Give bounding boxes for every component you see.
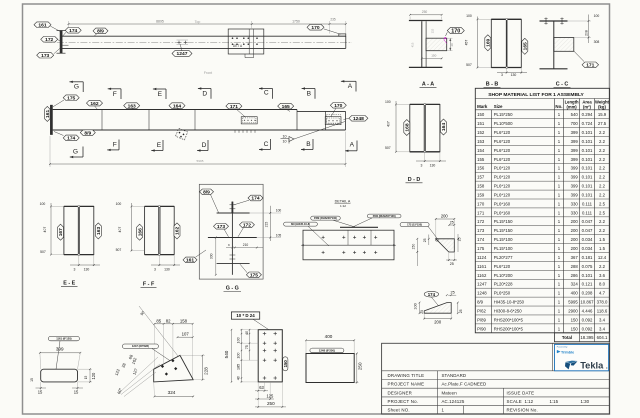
- svg-text:No.: No.: [555, 104, 562, 109]
- svg-text:100: 100: [236, 353, 240, 359]
- svg-text:(kg): (kg): [598, 104, 606, 109]
- svg-text:130: 130: [511, 73, 517, 77]
- svg-text:0.101: 0.101: [582, 139, 593, 144]
- svg-text:18.395: 18.395: [580, 335, 594, 340]
- svg-text:B - B: B - B: [486, 82, 499, 88]
- svg-text:P/62: P/62: [477, 308, 486, 313]
- svg-text:B: B: [307, 90, 312, 97]
- svg-text:507: 507: [116, 248, 122, 252]
- svg-text:PL15*150: PL15*150: [494, 219, 513, 224]
- svg-text:0.047: 0.047: [582, 219, 593, 224]
- svg-text:540: 540: [224, 350, 229, 358]
- svg-text:1124: 1124: [477, 255, 487, 260]
- svg-text:PL6*120: PL6*120: [494, 175, 511, 180]
- svg-text:604.1: 604.1: [597, 335, 608, 340]
- svg-text:413: 413: [411, 42, 415, 47]
- svg-text:0.111: 0.111: [582, 201, 593, 206]
- svg-text:0.101: 0.101: [582, 175, 593, 180]
- svg-text:151: 151: [477, 121, 485, 126]
- svg-text:(mm): (mm): [566, 104, 577, 109]
- svg-text:PL6*120: PL6*120: [494, 184, 511, 189]
- svg-text:RHS200*100*5: RHS200*100*5: [494, 326, 524, 331]
- svg-text:P/89 (RHS200*100): P/89 (RHS200*100): [314, 216, 337, 220]
- svg-text:0.181: 0.181: [582, 255, 593, 260]
- svg-text:400: 400: [325, 334, 333, 339]
- svg-text:PL20*228: PL20*228: [494, 282, 513, 287]
- svg-text:165: 165: [522, 42, 528, 50]
- svg-text:185: 185: [236, 364, 240, 370]
- svg-text:40: 40: [245, 331, 249, 335]
- svg-text:507: 507: [466, 63, 472, 67]
- svg-text:2.2: 2.2: [599, 192, 606, 197]
- svg-text:170: 170: [477, 201, 485, 206]
- svg-text:100: 100: [594, 14, 600, 18]
- svg-text:200: 200: [571, 246, 579, 251]
- svg-text:A: A: [348, 83, 353, 90]
- svg-text:169: 169: [485, 38, 491, 46]
- svg-text:170: 170: [311, 25, 319, 31]
- svg-text:1:12: 1:12: [525, 399, 534, 404]
- svg-text:PL15*150: PL15*150: [494, 228, 513, 233]
- svg-text:173: 173: [41, 53, 49, 59]
- svg-text:Top: Top: [195, 20, 201, 24]
- svg-text:REVISION No.: REVISION No.: [507, 408, 538, 413]
- svg-text:PL15*100: PL15*100: [494, 237, 513, 242]
- svg-text:200: 200: [434, 319, 442, 324]
- svg-text:175: 175: [477, 246, 485, 251]
- svg-text:507: 507: [40, 250, 46, 254]
- svg-text:1:15: 1:15: [550, 399, 559, 404]
- svg-text:0.075: 0.075: [582, 264, 593, 269]
- svg-text:155: 155: [477, 157, 485, 162]
- svg-text:F - F: F - F: [143, 282, 155, 288]
- svg-text:1248: 1248: [477, 291, 487, 296]
- svg-text:F: F: [113, 142, 117, 149]
- svg-text:163: 163: [96, 227, 102, 235]
- svg-text:75: 75: [245, 345, 249, 349]
- svg-text:250: 250: [422, 10, 428, 14]
- svg-text:100: 100: [236, 337, 240, 343]
- svg-text:10 * D 24: 10 * D 24: [236, 313, 255, 318]
- svg-text:15: 15: [74, 390, 79, 395]
- svg-text:2900: 2900: [568, 308, 578, 313]
- svg-text:399: 399: [571, 192, 579, 197]
- svg-text:15: 15: [30, 378, 34, 382]
- svg-text:0.034: 0.034: [582, 237, 593, 242]
- svg-text:1248: 1248: [353, 116, 364, 122]
- svg-text:3.4: 3.4: [599, 326, 606, 331]
- svg-text:250: 250: [267, 401, 275, 406]
- svg-text:170: 170: [451, 28, 460, 34]
- svg-text:G: G: [73, 148, 78, 155]
- svg-text:P/89: P/89: [477, 317, 486, 322]
- svg-text:Mark: Mark: [477, 104, 488, 109]
- svg-text:8/9 (HI435-10-8): 8/9 (HI435-10-8): [291, 222, 310, 226]
- svg-text:407: 407: [118, 227, 122, 233]
- svg-text:E - E: E - E: [63, 280, 75, 286]
- svg-text:2.2: 2.2: [599, 148, 606, 153]
- svg-text:399: 399: [571, 139, 579, 144]
- svg-text:HI300-8-6*250: HI300-8-6*250: [494, 308, 523, 313]
- svg-text:1161 (6*120): 1161 (6*120): [56, 337, 71, 341]
- svg-text:174: 174: [67, 136, 75, 142]
- svg-text:1:12: 1:12: [340, 204, 346, 208]
- svg-text:P/90: P/90: [477, 326, 486, 331]
- svg-text:0.111: 0.111: [582, 210, 593, 215]
- svg-text:172 (15*150): 172 (15*150): [407, 222, 422, 226]
- svg-text:PL6*120: PL6*120: [494, 148, 511, 153]
- svg-text:3.4: 3.4: [599, 317, 606, 322]
- svg-text:171: 171: [477, 210, 485, 215]
- svg-text:399: 399: [571, 166, 579, 171]
- svg-text:235: 235: [330, 18, 336, 22]
- svg-text:200: 200: [441, 213, 449, 218]
- svg-text:164: 164: [441, 123, 447, 131]
- svg-text:PL6*120: PL6*120: [494, 264, 511, 269]
- svg-text:174: 174: [428, 292, 436, 297]
- svg-text:SCALE: SCALE: [507, 399, 522, 404]
- svg-text:1161: 1161: [477, 264, 487, 269]
- svg-text:1247: 1247: [477, 282, 487, 287]
- svg-text:PL6*120: PL6*120: [494, 130, 511, 135]
- svg-text:0.034: 0.034: [582, 246, 593, 251]
- svg-text:120: 120: [91, 372, 96, 380]
- svg-text:PL20*277: PL20*277: [494, 255, 513, 260]
- svg-text:100: 100: [116, 202, 122, 206]
- svg-text:324: 324: [168, 390, 176, 395]
- svg-text:288: 288: [571, 264, 579, 269]
- svg-text:100: 100: [466, 14, 472, 18]
- svg-text:118.6: 118.6: [597, 308, 608, 313]
- svg-text:150: 150: [431, 54, 436, 58]
- svg-text:0.101: 0.101: [582, 148, 593, 153]
- svg-text:172: 172: [477, 219, 485, 224]
- svg-text:125: 125: [266, 393, 274, 398]
- svg-text:Trimble: Trimble: [561, 350, 574, 354]
- svg-text:0.208: 0.208: [582, 291, 593, 296]
- svg-text:2.2: 2.2: [599, 157, 606, 162]
- svg-text:25: 25: [423, 238, 427, 242]
- svg-text:700: 700: [571, 121, 579, 126]
- svg-text:B: B: [306, 141, 311, 148]
- svg-text:PL10*500: PL10*500: [494, 121, 513, 126]
- svg-text:173: 173: [477, 228, 485, 233]
- svg-text:1750: 1750: [292, 19, 300, 23]
- svg-text:2.2: 2.2: [599, 184, 606, 189]
- svg-text:300: 300: [210, 253, 214, 259]
- svg-text:324: 324: [571, 282, 579, 287]
- svg-text:154: 154: [477, 148, 485, 153]
- svg-text:ISSUE DATE: ISSUE DATE: [507, 390, 535, 395]
- svg-text:1248 (6*250): 1248 (6*250): [319, 348, 335, 352]
- svg-text:PL6*120: PL6*120: [494, 192, 511, 197]
- svg-text:40: 40: [450, 43, 454, 47]
- svg-text:100: 100: [40, 202, 46, 206]
- svg-text:HI435-10-8*250: HI435-10-8*250: [494, 300, 525, 305]
- svg-text:Front: Front: [204, 71, 212, 75]
- svg-text:Tekla: Tekla: [580, 360, 604, 370]
- svg-text:25: 25: [459, 309, 463, 313]
- svg-text:8895: 8895: [156, 19, 164, 23]
- svg-text:167: 167: [58, 228, 64, 236]
- svg-text:D: D: [202, 90, 207, 97]
- svg-text:150: 150: [411, 244, 415, 250]
- svg-text:168: 168: [404, 123, 410, 131]
- svg-text:(m²): (m²): [583, 104, 592, 109]
- svg-text:4.7: 4.7: [599, 291, 606, 296]
- svg-text:150: 150: [283, 360, 288, 368]
- svg-text:158: 158: [180, 318, 188, 323]
- svg-text:172: 172: [45, 37, 53, 43]
- svg-text:25: 25: [450, 291, 454, 295]
- svg-text:1.5: 1.5: [599, 237, 606, 242]
- svg-text:158: 158: [477, 184, 485, 189]
- svg-text:0.724: 0.724: [582, 121, 593, 126]
- svg-text:286: 286: [571, 273, 579, 278]
- svg-text:150: 150: [571, 317, 579, 322]
- svg-text:161: 161: [38, 22, 46, 28]
- svg-text:PL15*250: PL15*250: [494, 112, 513, 117]
- svg-text:Sheet NO.: Sheet NO.: [388, 408, 410, 413]
- svg-text:2.2: 2.2: [599, 175, 606, 180]
- svg-text:2.2: 2.2: [599, 264, 606, 269]
- svg-text:250: 250: [358, 362, 363, 370]
- svg-text:Mateen: Mateen: [442, 390, 458, 395]
- svg-text:175: 175: [67, 95, 75, 101]
- svg-text:G - G: G - G: [226, 286, 239, 292]
- svg-text:25: 25: [450, 221, 454, 225]
- svg-text:457: 457: [465, 40, 469, 46]
- svg-text:399: 399: [56, 347, 64, 352]
- svg-text:200: 200: [571, 237, 579, 242]
- svg-text:1247 (20*228): 1247 (20*228): [132, 344, 149, 348]
- svg-text:174: 174: [477, 237, 485, 242]
- svg-text:0.294: 0.294: [582, 112, 593, 117]
- svg-text:10: 10: [282, 135, 286, 139]
- svg-text:153: 153: [477, 139, 485, 144]
- svg-text:25: 25: [450, 262, 454, 266]
- svg-text:150: 150: [477, 112, 485, 117]
- svg-text:507: 507: [385, 146, 391, 150]
- svg-text:115: 115: [430, 28, 434, 33]
- svg-text:130: 130: [84, 267, 90, 271]
- svg-text:161: 161: [186, 258, 194, 264]
- svg-text:159: 159: [477, 192, 485, 197]
- svg-text:174: 174: [251, 196, 259, 202]
- svg-text:PL6*250: PL6*250: [494, 291, 511, 296]
- svg-text:152: 152: [477, 130, 485, 135]
- svg-text:208: 208: [584, 30, 588, 36]
- svg-text:G: G: [74, 84, 79, 91]
- svg-text:C: C: [264, 141, 269, 148]
- svg-text:0.092: 0.092: [582, 317, 593, 322]
- svg-text:8/9: 8/9: [203, 189, 210, 195]
- svg-text:F: F: [113, 91, 117, 98]
- svg-text:Total: Total: [562, 335, 572, 340]
- svg-text:8/9: 8/9: [84, 130, 91, 136]
- svg-text:0.101: 0.101: [582, 130, 593, 135]
- svg-text:Ac.Plate.F CADNEED: Ac.Plate.F CADNEED: [442, 382, 487, 387]
- svg-text:5995: 5995: [197, 159, 204, 163]
- svg-text:399: 399: [571, 184, 579, 189]
- svg-text:2.2: 2.2: [599, 228, 606, 233]
- svg-text:AC.124125: AC.124125: [442, 399, 465, 404]
- svg-text:8/9: 8/9: [477, 300, 484, 305]
- svg-text:15.9: 15.9: [598, 112, 607, 117]
- svg-text:107: 107: [182, 332, 190, 337]
- svg-text:DETAIL A: DETAIL A: [335, 199, 351, 203]
- svg-text:25: 25: [420, 310, 424, 314]
- svg-text:378.0: 378.0: [597, 300, 608, 305]
- svg-text:210: 210: [243, 243, 249, 247]
- svg-text:0.101: 0.101: [582, 192, 593, 197]
- svg-text:399: 399: [571, 175, 579, 180]
- svg-text:2.2: 2.2: [599, 130, 606, 135]
- svg-text:3: 3: [501, 73, 503, 77]
- svg-text:D: D: [202, 142, 207, 149]
- svg-text:0.047: 0.047: [582, 228, 593, 233]
- svg-text:10: 10: [282, 140, 286, 144]
- svg-text:D - D: D - D: [408, 177, 421, 183]
- svg-text:407: 407: [43, 227, 47, 233]
- svg-text:3: 3: [421, 164, 423, 168]
- svg-text:150: 150: [571, 326, 579, 331]
- svg-text:100: 100: [276, 209, 282, 213]
- svg-text:100: 100: [385, 100, 391, 104]
- svg-text:2.2: 2.2: [599, 139, 606, 144]
- svg-text:175: 175: [250, 272, 258, 278]
- svg-text:162: 162: [175, 227, 181, 235]
- svg-text:540: 540: [571, 112, 579, 117]
- svg-text:DRAWING TITLE: DRAWING TITLE: [388, 373, 425, 378]
- svg-text:4.446: 4.446: [582, 308, 593, 313]
- svg-text:308: 308: [594, 40, 600, 44]
- svg-text:2.2: 2.2: [599, 219, 606, 224]
- svg-text:STANDARD: STANDARD: [442, 373, 467, 378]
- svg-text:171: 171: [586, 62, 594, 68]
- svg-text:172: 172: [243, 222, 251, 228]
- svg-text:156: 156: [477, 166, 485, 171]
- svg-text:330: 330: [571, 201, 579, 206]
- svg-text:PL6*120: PL6*120: [494, 166, 511, 171]
- svg-text:1247: 1247: [177, 51, 188, 57]
- svg-text:PL6*120: PL6*120: [494, 157, 511, 162]
- svg-text:A - A: A - A: [422, 82, 434, 88]
- svg-text:228: 228: [203, 367, 208, 375]
- svg-text:E: E: [158, 91, 163, 98]
- svg-text:85: 85: [156, 318, 161, 323]
- svg-text:3: 3: [154, 267, 156, 271]
- svg-text:Size: Size: [494, 104, 503, 109]
- svg-text:8/9: 8/9: [97, 29, 104, 35]
- svg-text:170: 170: [334, 103, 342, 109]
- svg-text:174: 174: [69, 28, 77, 34]
- svg-text:PL6*120: PL6*120: [494, 139, 511, 144]
- svg-text:330: 330: [571, 210, 579, 215]
- svg-text:A: A: [350, 141, 355, 148]
- svg-text:367: 367: [571, 255, 579, 260]
- svg-text:130: 130: [430, 164, 436, 168]
- svg-text:DESIGNER: DESIGNER: [388, 390, 413, 395]
- svg-text:27.5: 27.5: [598, 121, 607, 126]
- svg-text:PROJECT No.: PROJECT No.: [388, 399, 419, 404]
- svg-text:DET A: DET A: [233, 44, 243, 48]
- svg-text:25: 25: [458, 237, 462, 241]
- svg-text:SHOP MATERIAL LIST FOR 1 ASSEM: SHOP MATERIAL LIST FOR 1 ASSEMBLY: [488, 92, 584, 98]
- svg-text:8.0: 8.0: [599, 282, 606, 287]
- svg-text:1:30: 1:30: [581, 399, 590, 404]
- svg-text:15: 15: [84, 376, 88, 380]
- svg-text:0.101: 0.101: [582, 157, 593, 162]
- svg-text:171: 171: [230, 104, 238, 110]
- svg-text:200: 200: [571, 228, 579, 233]
- svg-text:PL10*200: PL10*200: [494, 273, 513, 278]
- svg-text:0.101: 0.101: [582, 184, 593, 189]
- svg-text:12.4: 12.4: [598, 255, 607, 260]
- svg-text:82: 82: [166, 318, 171, 323]
- svg-text:407: 407: [387, 121, 391, 127]
- svg-text:100: 100: [413, 303, 417, 309]
- svg-text:3.6: 3.6: [599, 273, 606, 278]
- svg-text:5995: 5995: [568, 300, 578, 305]
- svg-text:C: C: [264, 90, 269, 97]
- svg-text:15: 15: [38, 390, 43, 395]
- svg-text:PROJECT NAME: PROJECT NAME: [388, 382, 425, 387]
- svg-text:3: 3: [74, 267, 76, 271]
- svg-text:200: 200: [571, 219, 579, 224]
- svg-text:130: 130: [164, 267, 170, 271]
- svg-text:P/90 (RHS200*100): P/90 (RHS200*100): [373, 214, 396, 218]
- svg-text:1.5: 1.5: [599, 246, 606, 251]
- svg-text:0.092: 0.092: [582, 326, 593, 331]
- svg-text:63: 63: [259, 385, 264, 390]
- svg-text:2.2: 2.2: [599, 166, 606, 171]
- svg-text:1162: 1162: [477, 273, 487, 278]
- svg-text:400: 400: [571, 291, 579, 296]
- svg-text:157: 157: [477, 175, 485, 180]
- svg-text:105: 105: [276, 234, 282, 238]
- svg-text:E: E: [157, 142, 162, 149]
- svg-text:Powered by: Powered by: [557, 347, 568, 349]
- svg-text:215: 215: [265, 222, 269, 228]
- svg-text:161: 161: [45, 110, 51, 118]
- svg-text:C - C: C - C: [556, 82, 569, 88]
- svg-text:PL6*160: PL6*160: [494, 201, 511, 206]
- svg-text:166: 166: [137, 228, 143, 236]
- svg-text:399: 399: [571, 157, 579, 162]
- svg-text:10.867: 10.867: [580, 300, 594, 305]
- svg-text:0.101: 0.101: [582, 166, 593, 171]
- svg-text:399: 399: [571, 148, 579, 153]
- svg-text:0.101: 0.101: [582, 273, 593, 278]
- svg-text:399: 399: [571, 130, 579, 135]
- svg-text:40: 40: [236, 376, 240, 380]
- svg-text:2.5: 2.5: [599, 210, 606, 215]
- svg-text:0.121: 0.121: [582, 282, 593, 287]
- svg-text:PL15*100: PL15*100: [494, 246, 513, 251]
- svg-text:2.5: 2.5: [599, 201, 606, 206]
- svg-text:PL6*160: PL6*160: [494, 210, 511, 215]
- svg-text:RHS200*100*5: RHS200*100*5: [494, 317, 524, 322]
